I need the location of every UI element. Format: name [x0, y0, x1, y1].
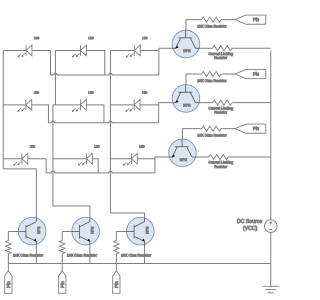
- svg-text:LED: LED: [94, 144, 99, 148]
- svg-text:10K Ohm Resistor: 10K Ohm Resistor: [121, 253, 152, 257]
- svg-text:Resistor: Resistor: [214, 111, 228, 115]
- svg-text:Pin: Pin: [60, 281, 65, 288]
- svg-text:10K Ohm Resistor: 10K Ohm Resistor: [197, 79, 227, 83]
- svg-text:NPN: NPN: [183, 103, 191, 107]
- svg-text:LED: LED: [34, 90, 39, 94]
- svg-text:LED: LED: [142, 90, 147, 94]
- svg-text:NPN: NPN: [183, 49, 191, 53]
- svg-text:LED: LED: [30, 144, 35, 148]
- svg-text:NPN: NPN: [91, 226, 95, 234]
- svg-text:10K Ohm Resistor: 10K Ohm Resistor: [197, 24, 227, 28]
- svg-text:Pin: Pin: [6, 281, 11, 288]
- svg-text:LED: LED: [88, 36, 93, 40]
- svg-text:10K Ohm Resistor: 10K Ohm Resistor: [67, 253, 98, 257]
- svg-text:(VCC): (VCC): [243, 226, 258, 232]
- svg-text:Pin: Pin: [253, 17, 260, 22]
- svg-text:NPN: NPN: [37, 226, 41, 234]
- svg-text:LED: LED: [34, 36, 39, 40]
- svg-text:LED: LED: [88, 90, 93, 94]
- svg-text:Pin: Pin: [114, 281, 119, 288]
- svg-text:Pin: Pin: [253, 72, 260, 77]
- svg-text:LED: LED: [142, 36, 147, 40]
- svg-text:NPN: NPN: [180, 158, 188, 162]
- svg-text:10K Ohm Resistor: 10K Ohm Resistor: [13, 253, 44, 257]
- svg-text:Resistor: Resistor: [214, 56, 228, 60]
- svg-text:10K Ohm Resistor: 10K Ohm Resistor: [197, 133, 227, 137]
- svg-text:NPN: NPN: [145, 226, 149, 234]
- svg-text:DC Source: DC Source: [237, 219, 262, 225]
- svg-text:Pin: Pin: [253, 126, 260, 131]
- svg-text:LED: LED: [139, 144, 144, 148]
- svg-text:Resistor: Resistor: [214, 165, 228, 169]
